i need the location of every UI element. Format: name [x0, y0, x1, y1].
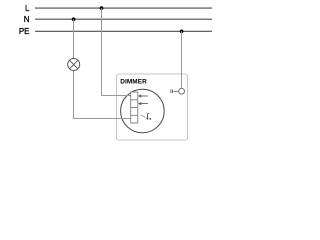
- arrow into terminal 1: [139, 95, 148, 98]
- svg-text:DIMMER: DIMMER: [120, 78, 147, 85]
- dimmer knob circle: [121, 89, 165, 133]
- earth terminal on dimmer: [171, 88, 185, 94]
- arrow into terminal 2: [139, 102, 148, 105]
- svg-text:L: L: [25, 4, 30, 13]
- junction dot on PE: [180, 29, 184, 33]
- wire N bus: [35, 18, 212, 20]
- wire from N through lamp to dimmer terminal 4: [74, 19, 132, 118]
- control arrow symbol: [146, 113, 151, 120]
- svg-text:N: N: [24, 15, 30, 24]
- lamp E1: [68, 59, 80, 71]
- junction dot on N: [72, 17, 76, 21]
- junction dot on L: [100, 6, 104, 10]
- terminal strip: [131, 92, 138, 123]
- dimmer box: [117, 74, 188, 140]
- wire from PE to earth terminal: [181, 31, 183, 88]
- wire from L to dimmer terminal 1: [102, 8, 132, 95]
- wire PE bus: [35, 30, 212, 32]
- control lead from terminal 4: [141, 115, 146, 118]
- wire L bus: [35, 7, 212, 9]
- svg-text:PE: PE: [19, 27, 30, 36]
